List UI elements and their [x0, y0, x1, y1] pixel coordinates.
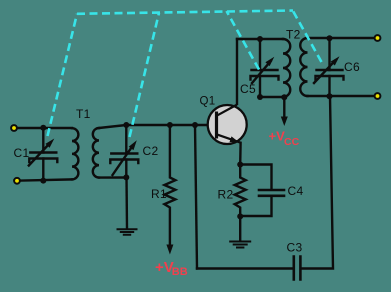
wire input bottom rail — [17, 179, 72, 180]
capacitor C5 stems — [259, 39, 261, 70]
wire C2 to ground — [125, 178, 128, 229]
capacitor C6 arrow — [314, 61, 335, 83]
capacitor C4 bottom wire — [240, 197, 271, 216]
wire T2 secondary bottom — [308, 95, 378, 97]
arrowhead Vcc — [281, 117, 288, 127]
transformer T2 secondary winding — [300, 38, 307, 96]
C5 arrow head — [265, 57, 274, 66]
terminal input 2 — [13, 177, 21, 185]
svg-text:R2: R2 — [218, 188, 234, 202]
wire input top rail — [14, 127, 72, 129]
terminal output 2 — [374, 92, 382, 100]
dashed leg to C2 — [130, 13, 160, 137]
wire Vcc drop — [283, 97, 285, 118]
capacitor C1 stems — [42, 128, 44, 153]
wire T2 secondary top — [308, 37, 378, 39]
C6 arrow head — [331, 56, 340, 65]
C1 arrow head — [45, 139, 54, 148]
capacitor C1 arrow — [29, 143, 50, 166]
capacitor C4 plates — [259, 190, 284, 196]
wire R2 to ground — [239, 217, 241, 241]
svg-text:C6: C6 — [344, 60, 360, 74]
capacitor C4 top wire — [240, 165, 271, 190]
svg-text:CC: CC — [284, 136, 300, 148]
transformer T1 primary winding — [72, 128, 78, 179]
resistor R2 — [235, 165, 246, 217]
svg-text:Q1: Q1 — [200, 96, 216, 108]
wire top rail to T2 — [237, 38, 283, 40]
wire C3 right to C6 node — [302, 97, 333, 269]
svg-text:C3: C3 — [287, 241, 303, 255]
wire C5 bottom rail — [260, 96, 284, 98]
ground under R2 — [230, 242, 250, 248]
svg-text:C1: C1 — [14, 146, 30, 160]
svg-text:R1: R1 — [151, 187, 167, 201]
arrowhead Vbb — [166, 245, 173, 255]
svg-text:BB: BB — [172, 266, 188, 278]
transformer T1 secondary winding — [93, 128, 99, 178]
terminal input 1 — [10, 124, 18, 132]
wire T1 secondary top to base — [99, 125, 208, 128]
capacitor C6 stems — [328, 38, 330, 70]
terminal output 1 — [374, 34, 382, 42]
capacitor C5 arrow — [252, 61, 271, 83]
capacitor C5 plates — [251, 70, 279, 80]
svg-text:T1: T1 — [76, 107, 91, 121]
capacitor C6 plates — [316, 70, 344, 80]
capacitor C3 plates — [294, 257, 301, 280]
dashed leg to C1 — [48, 14, 78, 136]
dashed gang bar — [77, 11, 293, 14]
wire T1 secondary bottom — [99, 176, 126, 179]
transformer T2 primary winding — [283, 39, 290, 97]
dashed leg to C5 — [227, 11, 260, 70]
wire base junction down to C3 — [195, 125, 197, 269]
C2 arrow head — [129, 140, 137, 150]
svg-text:C4: C4 — [288, 184, 304, 198]
svg-text:C5: C5 — [240, 82, 256, 96]
wire bottom to C3 — [197, 267, 293, 269]
capacitor C2 plates — [110, 154, 138, 164]
ganged tuning dashed lines — [48, 11, 322, 138]
svg-text:T2: T2 — [286, 28, 301, 42]
capacitor C2 stems — [125, 125, 127, 154]
transistor Q1 — [208, 105, 247, 144]
ground under C2 — [118, 229, 137, 234]
svg-text:C2: C2 — [143, 144, 159, 158]
capacitor C2 arrow — [113, 146, 133, 175]
resistor R1 — [164, 125, 175, 245]
svg-text:+V: +V — [269, 129, 286, 144]
wire collector up — [236, 39, 238, 104]
wire emitter down — [239, 143, 242, 165]
dashed leg to C6 — [293, 11, 322, 62]
capacitor C1 plates — [29, 153, 57, 163]
